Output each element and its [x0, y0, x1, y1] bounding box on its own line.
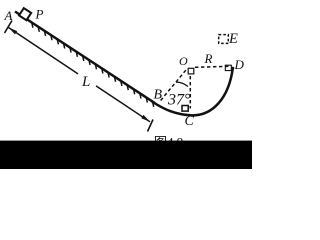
dashed block at E [219, 35, 229, 44]
right-angle square at O [188, 68, 194, 74]
dashed radius OB [159, 70, 186, 102]
incline surface line [15, 12, 155, 104]
dashed radius OC (vertical) [189, 76, 191, 109]
arrowhead at B end [141, 115, 150, 122]
end tick at B [148, 120, 154, 132]
block P (square on incline) [19, 8, 31, 20]
circular arc track B-C-D [152, 67, 233, 116]
svg-text:O: O [179, 54, 188, 68]
svg-text:D: D [234, 57, 245, 72]
svg-text:C: C [185, 114, 195, 129]
right-angle square at D [225, 65, 231, 70]
svg-text:L: L [81, 74, 90, 90]
svg-text:P: P [35, 7, 44, 22]
dimension line L (two segments with gap for label) [9, 28, 151, 122]
svg-text:37°: 37° [167, 92, 191, 109]
37 degree angle arc [176, 82, 188, 86]
end tick at A [5, 21, 13, 34]
incline hatching ticks [32, 23, 154, 107]
arrowhead at A end [9, 28, 18, 35]
right-angle square at C [182, 106, 188, 112]
black censor bar [0, 141, 252, 169]
svg-text:B: B [154, 88, 163, 103]
svg-text:R: R [204, 51, 213, 66]
svg-text:E: E [228, 31, 238, 47]
dashed radius OD (horizontal) [195, 66, 230, 67]
